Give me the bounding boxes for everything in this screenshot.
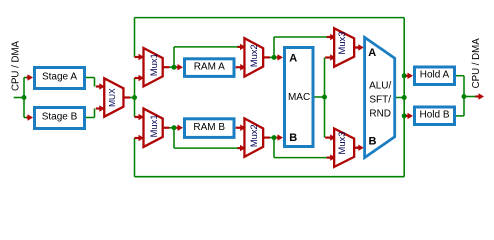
svg-text:MUX: MUX — [107, 88, 117, 107]
svg-text:B: B — [369, 136, 377, 148]
svg-text:RAM B: RAM B — [193, 122, 225, 133]
svg-text:Hold B: Hold B — [419, 109, 449, 120]
svg-text:Mux3: Mux3 — [336, 132, 347, 155]
svg-text:A: A — [289, 53, 297, 65]
svg-text:Stage B: Stage B — [42, 112, 78, 123]
svg-text:SFT/: SFT/ — [369, 95, 391, 106]
svg-text:Mux1: Mux1 — [148, 114, 159, 137]
svg-text:Stage A: Stage A — [42, 72, 77, 83]
svg-text:B: B — [289, 132, 297, 144]
svg-text:MAC: MAC — [288, 92, 310, 103]
svg-text:Mux2: Mux2 — [248, 44, 259, 67]
svg-text:RND: RND — [369, 109, 391, 120]
svg-text:Mux2: Mux2 — [248, 124, 259, 147]
svg-text:Mux1: Mux1 — [148, 53, 159, 76]
svg-text:ALU/: ALU/ — [369, 81, 391, 92]
svg-text:CPU / DMA: CPU / DMA — [11, 40, 22, 91]
svg-text:Mux3: Mux3 — [336, 32, 347, 55]
svg-text:RAM A: RAM A — [194, 61, 225, 72]
svg-text:CPU / DMA: CPU / DMA — [471, 38, 482, 89]
svg-text:A: A — [368, 47, 376, 59]
svg-text:Hold A: Hold A — [420, 69, 450, 80]
